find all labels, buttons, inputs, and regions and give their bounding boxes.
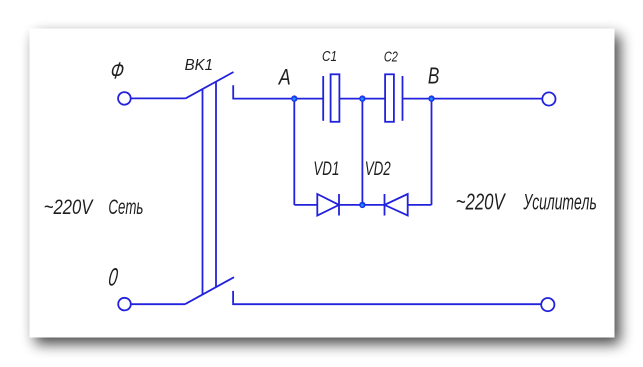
svg-text:Уcuлumeль: Уcuлumeль — [523, 190, 597, 215]
wire VD1 to VD2 — [339, 204, 385, 206]
capacitor C1 — [323, 74, 339, 122]
node A junction dot — [291, 95, 297, 101]
terminal output top (B side) — [542, 92, 555, 105]
wire C1 to C2 — [339, 98, 385, 100]
wire mid node down to diode junction — [361, 99, 363, 205]
diode VD2 — [385, 194, 408, 216]
wire node B down to diode row — [431, 99, 433, 205]
terminal Ф (phase input) — [118, 92, 131, 105]
switch BK1 bottom blade — [185, 277, 234, 304]
svg-text:VD1: VD1 — [313, 158, 339, 180]
switch BK1 top fixed contact stub + wire to node A and C1 — [233, 85, 323, 98]
wire VD2 to node B leg — [408, 204, 432, 206]
svg-text:VD2: VD2 — [365, 158, 391, 180]
svg-text:Cemь: Cemь — [108, 196, 143, 219]
wire C2 to node B — [403, 98, 432, 100]
node B dot highlight — [430, 97, 433, 100]
svg-text:BK1: BK1 — [185, 57, 213, 74]
diode junction dot highlight — [361, 204, 364, 207]
mid top dot highlight — [361, 97, 364, 100]
diode VD1 — [317, 194, 339, 216]
svg-text:~220V: ~220V — [456, 189, 507, 215]
junction dot between VD1 and VD2 — [359, 202, 365, 208]
wire Ф terminal to switch — [131, 97, 186, 99]
junction dot between C1 and C2 — [359, 95, 365, 101]
terminal 0 (neutral input) — [118, 298, 131, 311]
svg-text:A: A — [277, 65, 291, 90]
svg-text:C2: C2 — [384, 50, 398, 66]
wire 0 terminal to switch bottom — [131, 303, 185, 305]
terminal output bottom — [541, 298, 554, 311]
switch BK1 linkage line right — [215, 82, 217, 287]
svg-text:~220V: ~220V — [44, 196, 94, 219]
switch BK1 top blade — [186, 72, 234, 98]
node A dot highlight — [293, 97, 296, 100]
wire node B to output terminal — [432, 98, 543, 100]
wire node A down to diode row — [293, 99, 295, 205]
capacitor C2 — [385, 74, 402, 122]
switch BK1 bottom fixed contact stub + bottom rail wire — [233, 291, 542, 304]
wire node A leg to VD1 — [294, 204, 317, 206]
switch BK1 linkage line left — [202, 89, 204, 294]
svg-text:B: B — [428, 63, 440, 89]
svg-text:C1: C1 — [322, 49, 337, 65]
node B junction dot — [428, 95, 434, 101]
